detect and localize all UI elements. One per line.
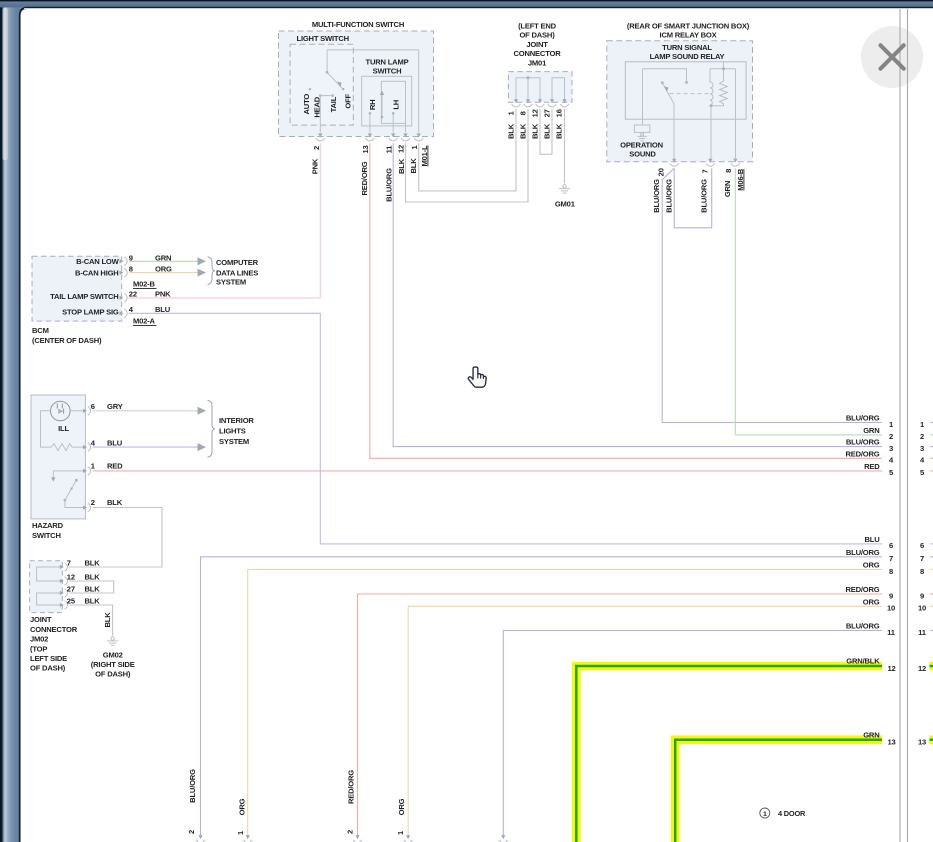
- svg-text:TAIL LAMP SWITCH: TAIL LAMP SWITCH: [50, 292, 119, 301]
- connector pins of multi-function switch: [318, 133, 322, 137]
- svg-text:GRY: GRY: [107, 402, 123, 411]
- window top frame: [0, 0, 933, 7]
- svg-text:8: 8: [724, 169, 733, 173]
- hazard switch illumination bulb ILL: [51, 401, 71, 421]
- wire BLK JM02 jumper pin12 to pin27: [70, 581, 114, 593]
- svg-text:7: 7: [67, 559, 71, 568]
- svg-text:BLU: BLU: [864, 535, 880, 544]
- svg-text:LH: LH: [392, 100, 401, 110]
- svg-text:HEAD: HEAD: [313, 96, 322, 117]
- svg-text:GM02: GM02: [103, 651, 123, 660]
- JM01 internal bridge pins 1-8-12: [516, 78, 540, 101]
- wire GRN circuit 2 from ICM pin8: [735, 168, 882, 435]
- JM02 internal bridge pins 7-12: [37, 567, 61, 581]
- svg-text:(TOP: (TOP: [30, 644, 47, 653]
- svg-text:SYSTEM: SYSTEM: [219, 437, 249, 446]
- wire BLK hazard ground to JM02 pin7: [69, 508, 163, 568]
- svg-text:RH: RH: [368, 100, 377, 111]
- svg-text:PNK: PNK: [311, 158, 320, 174]
- svg-text:BLK: BLK: [506, 123, 515, 139]
- JM01 internal bridge pins 27-16: [552, 78, 565, 101]
- svg-text:JOINT: JOINT: [526, 40, 548, 49]
- svg-text:20: 20: [657, 168, 666, 176]
- wire relay K1 contact to operation sound: [642, 69, 644, 125]
- svg-text:4 DOOR: 4 DOOR: [778, 809, 806, 818]
- relay K1 coil: [710, 69, 713, 106]
- svg-text:GRN: GRN: [863, 730, 879, 739]
- svg-text:(REAR OF SMART JUNCTION BOX): (REAR OF SMART JUNCTION BOX): [627, 21, 750, 30]
- svg-text:12: 12: [396, 145, 405, 153]
- svg-text:8: 8: [518, 111, 527, 115]
- relay K1 switch contacts: [643, 69, 687, 81]
- wire BLK S1 pin12 to JM01 pin8: [406, 109, 529, 202]
- svg-text:BLK: BLK: [397, 158, 406, 174]
- arrows to computer data lines system: [198, 257, 207, 265]
- close button X icon: [881, 45, 904, 68]
- wire BLU/ORG circuit 11: [503, 631, 882, 837]
- svg-text:SOUND: SOUND: [629, 149, 656, 158]
- svg-text:8: 8: [920, 567, 924, 576]
- wire RED/ORG circuit 9: [358, 594, 883, 836]
- svg-text:ICM RELAY BOX: ICM RELAY BOX: [660, 30, 717, 39]
- svg-text:JM02: JM02: [30, 635, 48, 644]
- svg-text:2: 2: [889, 432, 893, 441]
- svg-text:2: 2: [346, 830, 355, 834]
- connector pin 1 ORG bottom: [406, 835, 410, 839]
- svg-text:COMPUTER: COMPUTER: [216, 258, 259, 267]
- svg-text:ORG: ORG: [397, 798, 406, 815]
- svg-text:BLK: BLK: [555, 123, 564, 139]
- svg-text:B-CAN LOW: B-CAN LOW: [76, 257, 120, 266]
- svg-text:10: 10: [887, 604, 895, 613]
- relay K1 bottom node to pin7: [710, 105, 724, 107]
- svg-text:3: 3: [920, 444, 924, 453]
- wire BLU/ORG circuit 1 from ICM pin20: [662, 168, 882, 422]
- wire BLK light switch to M01-L pin1: [327, 49, 419, 51]
- svg-text:6: 6: [91, 402, 95, 411]
- wire ORG b-can high: [129, 272, 197, 274]
- svg-text:BLU/ORG: BLU/ORG: [846, 622, 880, 631]
- ground GM02 (right side of dash): [111, 637, 114, 640]
- svg-text:BLU/ORG: BLU/ORG: [699, 179, 708, 213]
- svg-text:TAIL: TAIL: [329, 96, 338, 112]
- svg-text:ORG: ORG: [863, 597, 880, 606]
- wire BLU hazard illumination: [93, 446, 198, 448]
- wire BLU/ORG ICM jumper pin20 to pin7: [674, 168, 712, 228]
- svg-text:RED: RED: [864, 462, 880, 471]
- svg-text:STOP LAMP SIG: STOP LAMP SIG: [62, 308, 119, 317]
- svg-text:RED/ORG: RED/ORG: [845, 449, 879, 458]
- wire ORG circuit 8: [248, 570, 882, 837]
- svg-text:GRN/BLK: GRN/BLK: [846, 657, 880, 666]
- relay K1 actuation dashed link: [670, 93, 710, 95]
- svg-text:13: 13: [918, 737, 926, 746]
- svg-text:LIGHTS: LIGHTS: [219, 427, 246, 436]
- svg-text:JOINT: JOINT: [30, 615, 52, 624]
- svg-text:BLK: BLK: [85, 597, 101, 606]
- wire PNK tail lamp switch BCM to S1 pin2: [128, 143, 320, 298]
- relay K1 top node: [710, 68, 736, 70]
- multi-function switch S1: [279, 31, 434, 137]
- svg-text:6: 6: [889, 541, 893, 550]
- svg-text:BLU/ORG: BLU/ORG: [385, 168, 394, 202]
- light switch section of S1: [290, 44, 353, 125]
- svg-text:RED/ORG: RED/ORG: [845, 585, 879, 594]
- wire BLK JM01 jumper pin12 to pin27: [540, 109, 552, 154]
- svg-text:9: 9: [889, 591, 893, 600]
- svg-text:BLK: BLK: [107, 498, 123, 507]
- svg-text:BLU/ORG: BLU/ORG: [665, 179, 674, 213]
- svg-text:M02-A: M02-A: [133, 316, 156, 325]
- svg-text:7: 7: [920, 554, 924, 563]
- svg-text:GRN: GRN: [723, 181, 732, 197]
- svg-text:BLU: BLU: [107, 438, 123, 447]
- JM02 internal bridge pins 27-25: [37, 593, 61, 605]
- svg-text:11: 11: [384, 145, 393, 154]
- svg-text:BLK: BLK: [85, 559, 101, 568]
- scrollbar thumb: [3, 8, 9, 160]
- wire BLU/ORG circuit 3 from S1 pin11: [393, 143, 882, 446]
- svg-text:10: 10: [918, 604, 926, 613]
- page boundary lines: [899, 8, 901, 842]
- svg-text:BLU/ORG: BLU/ORG: [846, 414, 880, 423]
- svg-text:2: 2: [920, 432, 924, 441]
- svg-text:MULTI-FUNCTION SWITCH: MULTI-FUNCTION SWITCH: [312, 20, 404, 29]
- svg-text:INTERIOR: INTERIOR: [219, 416, 254, 425]
- svg-text:B-CAN HIGH: B-CAN HIGH: [75, 268, 119, 277]
- hazard bulb leads: [70, 410, 84, 412]
- wire BLK JM01 pin16 to ground GM01: [564, 109, 566, 184]
- svg-text:TURN SIGNAL: TURN SIGNAL: [662, 43, 712, 52]
- svg-text:8: 8: [889, 567, 893, 576]
- svg-text:13: 13: [887, 737, 895, 746]
- svg-text:RED/ORG: RED/ORG: [347, 770, 356, 804]
- wire GRN/BLK circuit 12 highlighted: [576, 666, 882, 842]
- wire RED/ORG circuit 4 from S1 pin13: [370, 143, 882, 458]
- wire GRN circuit 13 highlighted: [675, 740, 882, 842]
- svg-text:7: 7: [889, 554, 893, 563]
- wire BLK S1 pin1 to JM01 pin1: [419, 109, 516, 191]
- svg-text:BLK: BLK: [85, 585, 101, 594]
- relay K1 resistor: [720, 69, 728, 106]
- svg-text:CONNECTOR: CONNECTOR: [514, 49, 562, 58]
- svg-text:ORG: ORG: [863, 561, 880, 570]
- svg-text:3: 3: [889, 444, 893, 453]
- svg-text:(RIGHT SIDE: (RIGHT SIDE: [91, 660, 135, 669]
- svg-text:BLU/ORG: BLU/ORG: [188, 769, 197, 803]
- wire RED circuit 5 hazard power: [93, 470, 882, 472]
- JM01 connector pins: [514, 99, 518, 103]
- svg-text:ORG: ORG: [238, 798, 247, 815]
- svg-text:DATA LINES: DATA LINES: [216, 268, 258, 277]
- svg-text:OF DASH): OF DASH): [30, 664, 66, 673]
- wire GRN b-can low: [129, 260, 197, 262]
- wire BLU/ORG circuit 7: [201, 557, 883, 836]
- svg-text:BLU/ORG: BLU/ORG: [652, 179, 661, 213]
- svg-text:BLK: BLK: [518, 123, 527, 139]
- window left frame: [0, 0, 20, 842]
- svg-text:9: 9: [920, 591, 924, 600]
- svg-text:JM01: JM01: [528, 59, 547, 68]
- svg-text:RED: RED: [107, 462, 123, 471]
- arrows to interior lights system: [198, 407, 207, 415]
- wire ORG circuit 10: [408, 606, 882, 836]
- joint connector JM02 (top left side of dash): [30, 561, 63, 613]
- svg-text:M02-B: M02-B: [133, 280, 156, 289]
- mouse cursor: [468, 367, 486, 387]
- turn lamp switch of S1: [362, 76, 412, 126]
- svg-text:BLK: BLK: [409, 158, 418, 174]
- svg-text:2: 2: [187, 830, 196, 834]
- wire relay K1 top node to pin8: [735, 69, 737, 158]
- svg-text:27: 27: [67, 585, 75, 594]
- svg-text:7: 7: [701, 169, 710, 173]
- svg-text:OPERATION: OPERATION: [620, 141, 663, 150]
- wire BLK JM02 pin25 to ground GM02: [70, 605, 113, 636]
- svg-text:1: 1: [763, 811, 767, 818]
- svg-text:13: 13: [361, 145, 370, 153]
- svg-text:SWITCH: SWITCH: [373, 66, 402, 75]
- svg-text:GM01: GM01: [555, 200, 576, 209]
- connector pin 2 BLU/ORG bottom: [198, 835, 202, 839]
- svg-text:BCM: BCM: [32, 326, 49, 335]
- svg-text:(CENTER OF DASH): (CENTER OF DASH): [32, 336, 102, 345]
- svg-text:BLK: BLK: [542, 123, 551, 139]
- svg-text:6: 6: [920, 541, 924, 550]
- svg-text:LIGHT SWITCH: LIGHT SWITCH: [297, 34, 349, 43]
- svg-text:OF DASH): OF DASH): [95, 669, 131, 678]
- svg-text:BLK: BLK: [85, 573, 101, 582]
- svg-text:BLK: BLK: [530, 123, 539, 139]
- svg-text:ILL: ILL: [58, 424, 69, 433]
- svg-text:BLU/ORG: BLU/ORG: [846, 438, 880, 447]
- svg-text:(LEFT END: (LEFT END: [518, 21, 557, 30]
- svg-text:2: 2: [312, 146, 321, 150]
- svg-text:AUTO: AUTO: [302, 94, 311, 115]
- svg-text:25: 25: [67, 597, 76, 606]
- wire BLU circuit 6 stop lamp signal: [129, 313, 882, 544]
- svg-text:SWITCH: SWITCH: [32, 531, 61, 540]
- hazard illumination resistor: [51, 444, 84, 451]
- ICM connector pins: [672, 159, 676, 163]
- turn lamp switch contacts RH LH: [369, 112, 372, 115]
- svg-text:27: 27: [542, 109, 551, 117]
- operation sound buzzer: [634, 125, 649, 132]
- svg-text:BLK: BLK: [103, 612, 112, 628]
- svg-text:12: 12: [918, 664, 926, 673]
- joint connector JM01: [508, 72, 572, 103]
- close button: [861, 26, 923, 88]
- hazard switch S2: [31, 395, 85, 519]
- hazard connector pins: [83, 409, 87, 413]
- BCM connector pins M02-B M02-A: [120, 259, 124, 263]
- hazard switch contacts: [53, 471, 84, 478]
- svg-text:HAZARD: HAZARD: [32, 521, 64, 530]
- svg-text:11: 11: [887, 628, 896, 637]
- svg-text:LEFT SIDE: LEFT SIDE: [30, 654, 67, 663]
- svg-text:GRN: GRN: [863, 426, 879, 435]
- svg-text:TURN LAMP: TURN LAMP: [366, 57, 409, 66]
- connector pin 2 RED/ORG bottom: [355, 835, 359, 839]
- svg-text:BLU/ORG: BLU/ORG: [846, 548, 880, 557]
- connector pin 1 ORG bottom: [246, 835, 250, 839]
- JM02 connector pins: [60, 565, 64, 569]
- turn signal lamp sound relay K1: [625, 62, 746, 119]
- wire GRY hazard illumination: [93, 410, 198, 412]
- svg-text:22: 22: [129, 290, 137, 299]
- svg-text:PNK: PNK: [155, 290, 171, 299]
- connector pin BLU/ORG 11 bottom: [501, 835, 505, 839]
- svg-text:SYSTEM: SYSTEM: [216, 278, 246, 287]
- ground GM01: [563, 185, 566, 188]
- svg-text:12: 12: [887, 664, 895, 673]
- BCM module (center of dash): [32, 256, 122, 321]
- svg-text:2: 2: [91, 498, 95, 507]
- svg-text:CONNECTOR: CONNECTOR: [30, 625, 78, 634]
- svg-text:16: 16: [555, 109, 564, 117]
- ICM relay box (rear of smart junction box): [607, 41, 753, 162]
- svg-text:LAMP SOUND RELAY: LAMP SOUND RELAY: [650, 52, 725, 61]
- note 1 4-door: [760, 808, 770, 818]
- svg-text:12: 12: [530, 109, 539, 117]
- svg-text:12: 12: [67, 573, 75, 582]
- svg-text:RED/ORG: RED/ORG: [360, 161, 369, 195]
- light switch rotary contacts: [326, 50, 328, 73]
- svg-text:OF DASH): OF DASH): [519, 31, 555, 40]
- svg-text:OFF: OFF: [343, 93, 352, 108]
- svg-text:11: 11: [918, 628, 927, 637]
